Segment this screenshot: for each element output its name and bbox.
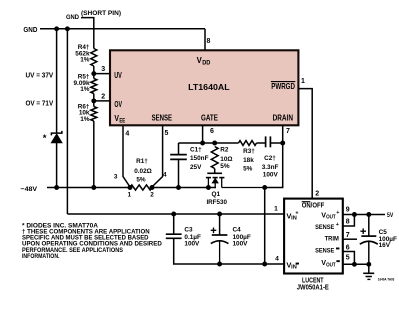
svg-text:3: 3 xyxy=(114,174,118,181)
svg-text:UV: UV xyxy=(114,71,122,80)
module pin number 8 xyxy=(346,219,350,226)
svg-text:UV = 37V: UV = 37V xyxy=(26,70,54,79)
transistor Q1 IRF530 xyxy=(206,173,265,187)
node GND (main rail label) xyxy=(23,25,38,34)
wire drain down to VIN- line xyxy=(264,188,266,265)
wire -48V rail mid xyxy=(152,187,216,189)
module pin number 9 xyxy=(346,207,350,214)
svg-text:SENSE: SENSE xyxy=(315,248,335,255)
junction gate/R2 xyxy=(212,141,217,146)
R1 sense terminal label 4 xyxy=(163,171,167,178)
svg-text:Q1: Q1 xyxy=(212,191,221,198)
wire VEE pin4 kelvin lead xyxy=(123,125,130,186)
svg-text:OUT: OUT xyxy=(326,262,336,268)
resistor R2 xyxy=(211,147,218,169)
junction SENSE-/VOUT- xyxy=(352,262,357,267)
wire SENSE- jumper xyxy=(343,252,355,265)
module pin name SENSE- xyxy=(315,248,339,255)
wire VOUT+ to 5V xyxy=(343,214,385,216)
wire C3 bottom lead and VIN- line left xyxy=(174,238,284,264)
pin number 1 PWRGD xyxy=(301,78,305,85)
wire SENSE+ jumper xyxy=(343,215,355,227)
wire R6 bottom lead xyxy=(93,121,95,188)
wire short-pin stub xyxy=(81,18,94,29)
label C4 100uF 100V xyxy=(233,227,251,248)
svg-text:8: 8 xyxy=(346,219,350,226)
label C2 3.3nF 100V xyxy=(262,155,279,179)
node -48V label xyxy=(21,186,38,193)
junction C5 top xyxy=(366,212,371,217)
svg-text:100V: 100V xyxy=(263,172,279,179)
label Q1 xyxy=(212,191,221,198)
module pin name VOUT- xyxy=(321,258,340,268)
wire OV pin2 stub xyxy=(94,100,110,102)
wire gate node horizontal xyxy=(179,142,239,144)
svg-text:5V: 5V xyxy=(387,212,394,219)
wire GND rail xyxy=(40,28,205,30)
junction drain branch to VIN- xyxy=(262,185,267,190)
ground symbol xyxy=(363,273,374,279)
node GND SHORT PIN label xyxy=(66,10,121,21)
svg-text:PWRGD: PWRGD xyxy=(271,82,295,91)
svg-text:3.3nF: 3.3nF xyxy=(262,164,279,171)
wire TRIM stub xyxy=(343,238,357,240)
resistor R6 xyxy=(91,107,97,122)
label C4 polarity + xyxy=(211,228,217,234)
junction C1/-48V rail xyxy=(176,185,181,190)
svg-text:6: 6 xyxy=(210,128,214,135)
wire C5 top lead xyxy=(368,215,370,237)
module U2 JW050A1-E body xyxy=(284,199,343,274)
svg-text:6: 6 xyxy=(346,245,350,252)
svg-text:150nF: 150nF xyxy=(190,155,209,162)
svg-text:+: + xyxy=(336,210,339,216)
wire zener bottom lead xyxy=(56,143,58,188)
svg-text:3: 3 xyxy=(101,66,105,73)
svg-text:DRAIN: DRAIN xyxy=(273,113,293,122)
label LUCENT xyxy=(302,276,324,285)
svg-text:GND: GND xyxy=(66,14,79,21)
wire GATE pin6 stub xyxy=(202,125,204,143)
svg-text:R3†: R3† xyxy=(243,148,255,155)
wire PWRGD to module ON/OFF xyxy=(298,89,312,199)
svg-text:18k: 18k xyxy=(243,157,254,164)
pin number 1 VIN+ xyxy=(274,206,278,213)
diode D1 zener SMAT70A xyxy=(51,131,62,143)
svg-text:JW050A1-E: JW050A1-E xyxy=(297,283,329,292)
svg-text:25V: 25V xyxy=(190,164,202,171)
label C1 150nF 25V xyxy=(190,146,209,171)
svg-text:(SHORT PIN): (SHORT PIN) xyxy=(81,10,121,17)
svg-text:1: 1 xyxy=(301,78,305,85)
svg-text:IN: IN xyxy=(291,265,297,271)
R1 sense terminal label 3 xyxy=(114,174,118,181)
svg-text:SENSE: SENSE xyxy=(152,113,173,122)
node 5V label xyxy=(387,212,394,219)
pin number 4 VIN- xyxy=(275,256,279,263)
svg-text:5: 5 xyxy=(164,130,168,137)
junction node UV divider tap xyxy=(91,71,96,76)
svg-text:OUT: OUT xyxy=(326,215,336,221)
wire C4 top lead xyxy=(219,214,221,235)
pin number 6 xyxy=(210,128,214,135)
svg-text:IRF530: IRF530 xyxy=(206,199,227,206)
junction GND/zener xyxy=(54,26,59,31)
junction node OV divider tap xyxy=(91,98,96,103)
label R1 0.02 5% xyxy=(134,158,152,184)
label OV = 71V xyxy=(26,98,54,107)
module pin number 5 xyxy=(346,254,350,261)
pin number 5 xyxy=(164,130,168,137)
svg-text:4: 4 xyxy=(275,256,279,263)
label * diode note mark xyxy=(43,133,47,144)
svg-text:TRIM: TRIM xyxy=(325,236,340,243)
svg-text:1%: 1% xyxy=(80,116,90,123)
wire R2 bottom lead xyxy=(214,169,216,174)
wire -48V rail left xyxy=(47,187,130,189)
junction gate/pin6 xyxy=(200,141,205,146)
svg-text:5: 5 xyxy=(346,254,350,261)
label R2 10ohm 5% xyxy=(220,147,232,171)
junction Q1 source/-48V xyxy=(206,185,211,190)
pin name UV xyxy=(114,71,122,80)
junction pin7/gate-line xyxy=(280,141,285,146)
svg-text:10Ω: 10Ω xyxy=(220,156,232,163)
pin name VEE xyxy=(114,114,125,124)
svg-text:GATE: GATE xyxy=(201,113,218,122)
label LT1640AL xyxy=(188,83,230,92)
junction C4 top xyxy=(217,212,222,217)
junction GND/VinPlus xyxy=(65,26,70,31)
svg-text:5%: 5% xyxy=(136,177,146,184)
wire VinPlus vertical from GND xyxy=(66,29,68,214)
svg-text:2: 2 xyxy=(315,190,319,197)
pin name VDD xyxy=(197,56,211,66)
svg-text:−48V: −48V xyxy=(21,186,38,193)
svg-text:OV: OV xyxy=(114,100,122,109)
resistor R3 xyxy=(239,141,257,146)
svg-text:C2†: C2† xyxy=(264,155,276,162)
wire zener top lead xyxy=(56,29,58,133)
IC U1 LT1640AL body xyxy=(110,50,298,125)
svg-text:SENSE: SENSE xyxy=(315,224,335,231)
R1 terminal label 2 xyxy=(150,192,154,199)
label UV = 37V xyxy=(26,70,54,79)
pin name SENSE xyxy=(152,113,173,122)
wire SENSE pin5 kelvin lead xyxy=(152,125,163,186)
module pin name VIN+ xyxy=(286,211,298,222)
wire VOUT- run xyxy=(343,263,369,265)
pin number 8 xyxy=(207,38,211,45)
svg-text:*: * xyxy=(43,133,47,144)
svg-text:R1†: R1† xyxy=(136,158,148,165)
svg-text:16V: 16V xyxy=(379,242,391,249)
label C3 0.1uF 100V xyxy=(184,227,201,248)
wire VDD pin8 stub xyxy=(204,29,206,51)
capacitor C4 polarized xyxy=(211,235,229,264)
svg-text:4: 4 xyxy=(163,171,167,178)
module pin name ON/OFF with overline on ON xyxy=(302,202,325,210)
svg-text:5%: 5% xyxy=(243,166,253,173)
pin number 2 xyxy=(101,94,105,101)
label C5 polarity + xyxy=(360,228,366,234)
resistor R4 xyxy=(91,49,97,67)
wire ground lead xyxy=(368,264,370,273)
figure tag 1640A TA03 xyxy=(378,277,395,281)
pin name DRAIN xyxy=(273,113,293,122)
svg-text:R2: R2 xyxy=(220,147,229,154)
junction C5 bottom xyxy=(366,262,371,267)
svg-text:INFORMATION.: INFORMATION. xyxy=(22,253,60,260)
svg-text:8: 8 xyxy=(207,38,211,45)
pin name GATE xyxy=(201,113,218,122)
svg-text:OV = 71V: OV = 71V xyxy=(26,98,54,107)
label JW050A1-E xyxy=(297,283,329,292)
svg-text:+: + xyxy=(295,211,298,217)
svg-text:1: 1 xyxy=(128,192,132,199)
wire C1 top lead xyxy=(178,143,180,155)
wire UV pin3 stub xyxy=(94,73,110,75)
wire R4-R5 xyxy=(93,66,95,79)
svg-text:1%: 1% xyxy=(80,57,90,64)
pin name OV xyxy=(114,100,122,109)
wire R4 top lead xyxy=(93,29,95,49)
svg-text:7: 7 xyxy=(286,128,290,135)
svg-text:100V: 100V xyxy=(184,241,200,248)
label C5 100uF 16V xyxy=(379,229,397,249)
junction R6/-48V rail xyxy=(91,185,96,190)
svg-text:C4: C4 xyxy=(233,227,242,234)
R1 terminal label 1 xyxy=(128,192,132,199)
svg-text:ON/OFF: ON/OFF xyxy=(302,203,325,210)
pin number 7 xyxy=(286,128,290,135)
module pin name TRIM xyxy=(325,236,340,243)
module pin name VOUT+ xyxy=(321,210,339,220)
module pin number 6 xyxy=(346,245,350,252)
svg-text:1%: 1% xyxy=(80,86,90,93)
capacitor C5 polarized xyxy=(360,236,378,264)
svg-text:5%: 5% xyxy=(220,163,230,170)
svg-text:EE: EE xyxy=(119,119,125,125)
svg-text:2: 2 xyxy=(101,94,105,101)
svg-text:GND: GND xyxy=(23,25,38,34)
svg-text:+: + xyxy=(336,222,339,228)
svg-text:LT1640AL: LT1640AL xyxy=(188,83,230,92)
svg-text:0.02Ω: 0.02Ω xyxy=(134,168,152,175)
note text block xyxy=(22,222,162,260)
svg-text:2: 2 xyxy=(150,192,154,199)
wire VinPlus horizontal xyxy=(67,213,284,215)
junction drain/VIN- line xyxy=(262,262,267,267)
pin number 3 xyxy=(101,66,105,73)
pin number 2 ON/OFF xyxy=(315,190,319,197)
module pin name VIN- xyxy=(286,261,299,271)
svg-text:7: 7 xyxy=(346,232,350,239)
svg-text:DD: DD xyxy=(202,60,211,66)
wire DRAIN pin7 lead xyxy=(265,125,283,187)
junction C3 top xyxy=(171,212,176,217)
pin name PWRGD with overline xyxy=(271,82,295,91)
svg-text:1: 1 xyxy=(274,206,278,213)
junction R1 terminal 2 xyxy=(150,185,155,190)
junction SENSE+/VOUT+ xyxy=(352,212,357,217)
label R5 9.09k 1% xyxy=(74,73,90,93)
label IRF530 xyxy=(206,199,227,206)
capacitor C1 xyxy=(170,155,187,160)
wire C1 bottom lead xyxy=(178,159,180,187)
capacitor C2 xyxy=(266,136,283,147)
svg-text:9: 9 xyxy=(346,207,350,214)
capacitor C3 xyxy=(166,234,182,238)
svg-text:4: 4 xyxy=(125,130,129,137)
svg-text:100V: 100V xyxy=(233,241,249,248)
junction R1 terminal 1 xyxy=(128,185,133,190)
wire R5-R6 xyxy=(93,94,95,107)
label R4 562k 1% xyxy=(75,44,90,64)
label R3 18k 5% xyxy=(243,148,255,172)
resistor R5 xyxy=(91,79,97,94)
wire R3-C2 xyxy=(257,142,266,144)
svg-text:C5: C5 xyxy=(379,229,388,236)
module pin name SENSE+ xyxy=(315,222,339,231)
junction C4 bottom xyxy=(217,262,222,267)
pin number 4 xyxy=(125,130,129,137)
junction zener/-48V xyxy=(54,185,59,190)
resistor R1 0.02ohm sense xyxy=(130,185,152,190)
module pin number 7 xyxy=(346,232,350,239)
wire C3 top lead xyxy=(173,214,175,234)
svg-text:C1†: C1† xyxy=(190,146,202,153)
label R6 10k 1% xyxy=(78,103,90,123)
svg-text:1640A TA03: 1640A TA03 xyxy=(378,277,395,281)
svg-text:C3: C3 xyxy=(184,227,193,234)
